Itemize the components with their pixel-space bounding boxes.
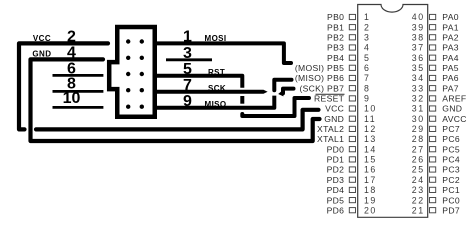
svg-text:11: 11 [364, 114, 376, 124]
svg-text:AVCC: AVCC [442, 114, 466, 124]
svg-text:PD4: PD4 [327, 185, 345, 195]
svg-text:SCK: SCK [208, 84, 226, 93]
svg-text:PD1: PD1 [327, 155, 345, 165]
svg-text:PC4: PC4 [442, 155, 460, 165]
wire RST vertical segment between hops [240, 96, 244, 104]
svg-text:3: 3 [183, 45, 192, 62]
pin 3 line (NC) [166, 58, 212, 61]
svg-text:23: 23 [412, 185, 425, 195]
svg-text:17: 17 [364, 175, 377, 185]
svg-text:PC1: PC1 [442, 185, 460, 195]
svg-text:39: 39 [412, 22, 425, 32]
svg-text:7: 7 [364, 73, 370, 83]
svg-text:6: 6 [364, 63, 370, 73]
wire RST final segment to RESET stub [242, 98, 309, 116]
svg-text:38: 38 [412, 33, 425, 43]
svg-text:33: 33 [412, 83, 425, 93]
svg-text:PB4: PB4 [327, 53, 344, 63]
svg-text:AREF: AREF [442, 94, 466, 104]
svg-text:28: 28 [412, 134, 425, 144]
svg-text:PC5: PC5 [442, 144, 460, 154]
svg-text:VCC: VCC [33, 34, 51, 43]
svg-text:PC2: PC2 [442, 175, 460, 185]
svg-text:7: 7 [183, 77, 192, 94]
svg-text:20: 20 [364, 205, 377, 215]
svg-text:29: 29 [412, 124, 425, 134]
svg-text:PA2: PA2 [442, 33, 459, 43]
svg-text:10: 10 [63, 90, 81, 107]
svg-text:19: 19 [364, 195, 377, 205]
wire MISO vertical upper part + stub to IC PB6 [274, 80, 291, 91]
svg-text:16: 16 [364, 165, 377, 175]
svg-text:18: 18 [364, 185, 377, 195]
wire SCK jog up to IC PB7 stub [283, 89, 294, 94]
svg-text:35: 35 [412, 63, 425, 73]
svg-text:GND: GND [32, 50, 51, 59]
svg-text:PC3: PC3 [442, 165, 460, 175]
svg-text:2: 2 [364, 22, 370, 32]
svg-text:PD3: PD3 [327, 175, 345, 185]
IC pin squares left column [349, 14, 355, 212]
svg-text:PA3: PA3 [442, 43, 459, 53]
svg-text:PD6: PD6 [327, 205, 345, 215]
svg-text:25: 25 [412, 165, 425, 175]
wire RST: connector pin5 toward IC RESET pin9 (segment 1) [157, 76, 242, 88]
svg-text:XTAL1: XTAL1 [317, 134, 344, 144]
svg-text:1: 1 [183, 28, 192, 45]
svg-text:PA7: PA7 [442, 83, 459, 93]
svg-text:32: 32 [412, 94, 425, 104]
IC pin numbers 40-21 (right column) [412, 12, 425, 215]
svg-text:GND: GND [442, 104, 462, 114]
svg-text:(MISO) PB6: (MISO) PB6 [295, 73, 344, 83]
IC right pin labels [442, 12, 466, 215]
svg-text:21: 21 [412, 205, 425, 215]
svg-text:14: 14 [364, 144, 377, 154]
wire MOSI: connector pin1 to IC PB5 [157, 43, 291, 63]
svg-text:PD2: PD2 [327, 165, 345, 175]
svg-text:5: 5 [183, 61, 192, 78]
svg-text:PD0: PD0 [327, 144, 345, 154]
svg-text:MISO: MISO [205, 100, 227, 109]
svg-text:PA6: PA6 [442, 73, 459, 83]
svg-text:9: 9 [183, 93, 192, 110]
svg-text:37: 37 [412, 43, 425, 53]
svg-text:VCC: VCC [325, 104, 344, 114]
svg-text:30: 30 [412, 114, 425, 124]
svg-text:PC6: PC6 [442, 134, 460, 144]
IC pin numbers 1-20 (left column) [364, 12, 377, 215]
RESET active-low overline [316, 93, 345, 95]
pin 6 line (NC) [53, 74, 104, 77]
svg-text:PB3: PB3 [327, 43, 344, 53]
svg-text:10: 10 [364, 104, 377, 114]
IC left pin labels [295, 12, 345, 215]
pin 10 line (NC) [53, 106, 104, 109]
svg-text:22: 22 [412, 195, 425, 205]
svg-text:1: 1 [364, 12, 370, 22]
svg-text:(MOSI) PB5: (MOSI) PB5 [295, 63, 344, 73]
svg-text:4: 4 [364, 43, 370, 53]
svg-text:13: 13 [364, 134, 377, 144]
svg-text:34: 34 [412, 73, 425, 83]
svg-text:27: 27 [412, 144, 425, 154]
wire VCC: pin2 stub + left vertical + bottom bus to IC VCC pin10 [19, 43, 108, 129]
svg-text:(SCK) PB7: (SCK) PB7 [299, 83, 344, 93]
svg-text:PA0: PA0 [442, 12, 459, 22]
svg-text:PA4: PA4 [442, 53, 459, 63]
svg-text:PB0: PB0 [327, 12, 344, 22]
svg-text:8: 8 [364, 83, 370, 93]
svg-text:36: 36 [412, 53, 425, 63]
wire VCC bus continuation after hop over GND vertical [36, 110, 319, 130]
svg-text:26: 26 [412, 155, 425, 165]
wire GND: pin4 stub + left vertical + bottom bus to IC GND pin11 [31, 59, 320, 141]
svg-text:12: 12 [364, 124, 377, 134]
svg-text:PC0: PC0 [442, 195, 460, 205]
IC U1 body (DIP-40) [358, 5, 428, 218]
svg-text:PA1: PA1 [442, 22, 459, 32]
svg-text:GND: GND [324, 114, 344, 124]
svg-text:PD7: PD7 [442, 205, 460, 215]
svg-text:PA5: PA5 [442, 63, 459, 73]
svg-text:PC7: PC7 [442, 124, 460, 134]
connector J1 body [109, 27, 155, 117]
svg-text:PB1: PB1 [327, 22, 344, 32]
svg-text:31: 31 [412, 104, 425, 114]
pin 8 line (NC) [53, 90, 104, 93]
svg-text:PB2: PB2 [327, 33, 344, 43]
connector contact dots [126, 39, 144, 109]
svg-text:5: 5 [364, 53, 370, 63]
svg-text:PD5: PD5 [327, 195, 345, 205]
svg-text:RESET: RESET [314, 94, 345, 104]
svg-text:2: 2 [67, 29, 76, 46]
wire SCK pointed end before MISO vertical [264, 90, 268, 94]
svg-text:40: 40 [412, 12, 425, 22]
svg-text:RST: RST [208, 68, 225, 77]
wire SCK left wedge after hop [278, 90, 283, 97]
IC pin squares right column [430, 14, 436, 212]
svg-text:XTAL2: XTAL2 [317, 124, 344, 134]
svg-text:MOSI: MOSI [205, 34, 227, 43]
svg-text:24: 24 [412, 175, 425, 185]
wire MISO: connector pin9 line + vertical (gap at SCK crossing) [157, 96, 274, 108]
svg-text:4: 4 [67, 45, 76, 62]
svg-text:3: 3 [364, 33, 370, 43]
svg-text:15: 15 [364, 155, 377, 165]
svg-text:9: 9 [364, 94, 370, 104]
wire SCK: connector pin7 line with hop gap [157, 90, 264, 94]
